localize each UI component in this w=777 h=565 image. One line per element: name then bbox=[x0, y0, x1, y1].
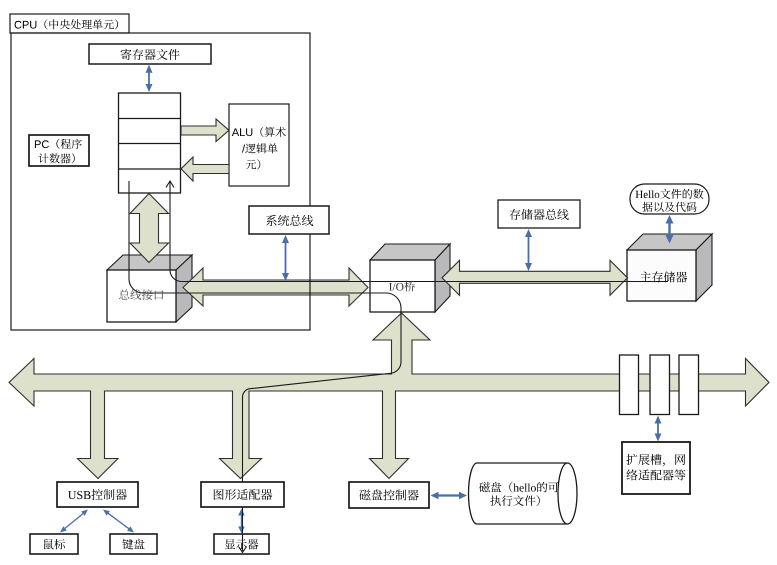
wire: inside display with arrowhead bbox=[239, 534, 247, 553]
3d box: main memory (主存储器) bbox=[627, 234, 712, 301]
blue double arrow: disk controller to disk bbox=[438, 494, 461, 496]
blue double arrow: memory bus label to bus bbox=[528, 236, 530, 264]
text: usb bbox=[68, 489, 127, 500]
box: system bus label (系统总线) bbox=[249, 206, 329, 234]
text: disk line1 bbox=[479, 482, 559, 493]
blue double arrow: hello data to main memory bbox=[668, 223, 670, 237]
blue double arrow: slots to expansion box bbox=[657, 423, 659, 435]
box: disk controller (磁盘控制器) bbox=[349, 482, 429, 508]
box: register stack bbox=[119, 93, 181, 193]
3d box: bus interface (总线接口) bbox=[107, 255, 192, 322]
wire: through display bbox=[242, 508, 244, 533]
blue double arrow: USB to keyboard bbox=[107, 513, 129, 529]
box: expansion slot label (扩展槽，网络适配器等) bbox=[622, 442, 690, 494]
box: CPU title tab bbox=[10, 14, 129, 33]
box: register file (寄存器文件) bbox=[89, 44, 211, 64]
text: sysbus bbox=[266, 215, 313, 226]
blue double arrow: graphics adapter to display bbox=[241, 515, 243, 528]
text: keyboard bbox=[122, 539, 144, 550]
blue double arrow: register file to register stack bbox=[148, 72, 150, 85]
box: graphics adapter (图形适配器) bbox=[201, 482, 284, 507]
wire: data path registers to main memory bbox=[170, 181, 668, 282]
text: alu line3 bbox=[246, 159, 260, 169]
box: ALU bbox=[229, 104, 289, 186]
thick arrow: I/O bus with branch arrows bbox=[9, 313, 769, 479]
text: regfile bbox=[121, 49, 180, 60]
thick double arrow: registers to bus interface bbox=[130, 194, 169, 263]
box: CPU outer boundary bbox=[11, 33, 310, 330]
text: alu line2 bbox=[242, 143, 278, 153]
arrowhead: open V into registers bbox=[166, 181, 174, 188]
box: USB controller (USB控制器) bbox=[57, 482, 138, 507]
text: pc line1 bbox=[35, 139, 82, 149]
text: alu line1 bbox=[232, 127, 286, 137]
text: slots line1 bbox=[626, 454, 685, 467]
text: cloud line1 bbox=[636, 189, 704, 199]
blue double arrow: system bus label to bus bbox=[285, 242, 287, 274]
blue double arrow: USB to mouse bbox=[64, 513, 84, 529]
thick double arrow: memory bus (I/O bridge to main memory) bbox=[442, 260, 628, 295]
text: pc line2 bbox=[39, 153, 75, 163]
text: diskctl bbox=[359, 489, 418, 500]
text: mouse bbox=[44, 539, 65, 550]
text: businterface bbox=[119, 289, 163, 300]
text: slots line2 bbox=[626, 469, 685, 480]
text: iobridge bbox=[389, 281, 415, 292]
text: cloud line2 bbox=[642, 202, 696, 212]
wire: stack row lines bbox=[119, 119, 181, 170]
box: keyboard (键盘) bbox=[110, 534, 157, 554]
text: CPU title bbox=[15, 19, 119, 29]
box: memory bus label (存储器总线) bbox=[498, 200, 580, 228]
thick double arrow: system bus (bus interface to I/O bridge) bbox=[183, 268, 368, 306]
wire: data path registers to display bbox=[129, 181, 401, 533]
box: expansion slot 2 bbox=[650, 355, 670, 415]
box: mouse (鼠标) bbox=[30, 534, 78, 554]
text: membus bbox=[510, 209, 569, 220]
3d box: I/O bridge (I/O桥) bbox=[370, 244, 450, 312]
box: expansion slot 3 bbox=[679, 355, 699, 415]
thick arrow: ALU to registers bbox=[181, 157, 229, 181]
box: PC program counter bbox=[29, 135, 89, 166]
thick arrow: registers to ALU bbox=[181, 119, 229, 142]
text: graphics bbox=[214, 489, 272, 500]
text: display bbox=[225, 539, 259, 549]
stadium: hello file data label bbox=[630, 184, 709, 214]
box: expansion slot 1 bbox=[620, 355, 639, 415]
text: disk line2 bbox=[490, 495, 540, 506]
box: display (显示器) bbox=[214, 534, 269, 554]
cylinder: disk (磁盘) bbox=[469, 463, 577, 524]
text: mainmem bbox=[640, 271, 687, 282]
